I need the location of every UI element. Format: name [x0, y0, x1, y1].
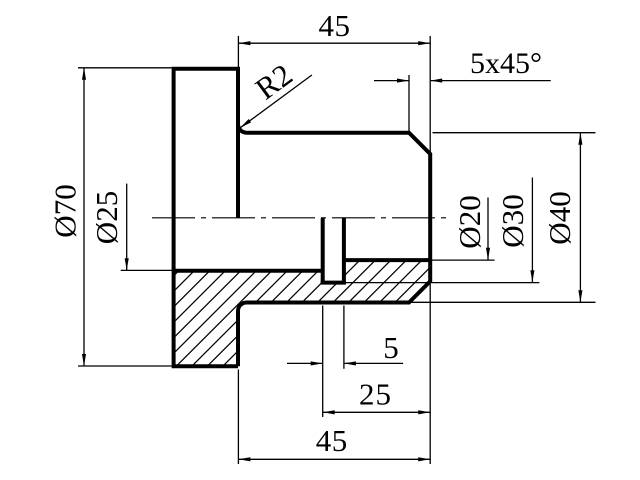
dim 45 bottom line	[238, 458, 430, 460]
chamfer extension line	[408, 75, 410, 133]
dim O30 line	[531, 178, 533, 283]
svg-text:5x45°: 5x45°	[470, 47, 542, 80]
bore O20 line	[344, 258, 430, 262]
svg-text:Ø70: Ø70	[48, 184, 83, 237]
dim O25 extension line	[121, 269, 174, 271]
groove O30 right edge	[342, 218, 346, 283]
dim O40 extension lines	[409, 133, 596, 303]
dim O20 line	[487, 198, 489, 260]
svg-text:25: 25	[359, 377, 392, 412]
svg-text:5: 5	[383, 330, 399, 365]
dim 45 top line	[238, 42, 430, 44]
dim 25 line	[323, 411, 431, 413]
part outline: flange	[174, 67, 238, 368]
dim O40 line	[579, 133, 581, 303]
groove O30 bottom	[321, 281, 346, 285]
dim 45 top extension lines	[238, 36, 430, 154]
centerline (axis)	[152, 217, 449, 219]
svg-text:Ø25: Ø25	[89, 191, 124, 244]
dim O70 line	[83, 68, 85, 366]
bore O25 line	[174, 269, 323, 273]
dim 5 line with converging arrows	[287, 362, 403, 364]
dim O25 line	[126, 184, 128, 270]
svg-text:Ø30: Ø30	[495, 194, 530, 247]
dim O30 extension line	[344, 282, 540, 284]
svg-text:Ø40: Ø40	[542, 191, 577, 244]
groove extension lines below	[323, 306, 344, 418]
dim O20 extension line	[430, 259, 494, 261]
svg-text:45: 45	[316, 423, 348, 458]
right extension line below	[429, 284, 431, 464]
section hatch (cut material of flange and body below axis)	[174, 260, 431, 366]
part outline: body top with fillet R2 and chamfer 5x45	[238, 124, 430, 366]
groove O30 left edge	[321, 218, 325, 283]
svg-text:Ø20: Ø20	[452, 195, 487, 248]
dim 5x45 line with converging arrows	[374, 80, 551, 82]
svg-text:45: 45	[319, 8, 351, 43]
flange-face extension line below	[237, 370, 239, 465]
leader R2	[240, 75, 312, 128]
dim O70 extension lines	[78, 68, 172, 366]
